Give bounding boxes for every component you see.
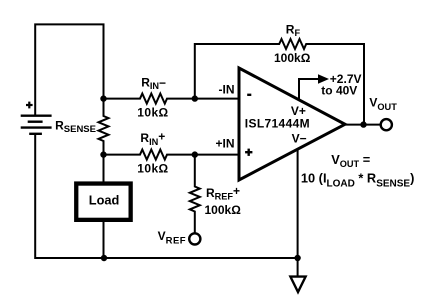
svg-text:to 40V: to 40V: [321, 83, 357, 97]
svg-text:Load: Load: [89, 192, 120, 207]
svg-text:ISL71444M: ISL71444M: [245, 116, 310, 130]
svg-text:-IN: -IN: [219, 83, 235, 97]
svg-text:10kΩ: 10kΩ: [137, 161, 168, 175]
svg-text:100kΩ: 100kΩ: [274, 51, 311, 65]
svg-text:+IN: +IN: [215, 137, 234, 151]
svg-text:10kΩ: 10kΩ: [137, 105, 168, 119]
svg-text:100kΩ: 100kΩ: [205, 203, 242, 217]
svg-text:V−: V−: [292, 131, 307, 145]
